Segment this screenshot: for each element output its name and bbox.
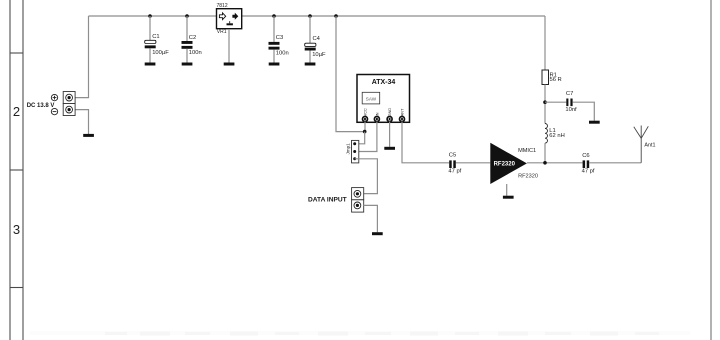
svg-text:DC 13.8 V: DC 13.8 V	[27, 103, 55, 109]
ground amp	[503, 196, 514, 199]
internal gnd mark	[229, 21, 231, 23]
capacitor C1	[145, 16, 170, 63]
svg-text:VCC: VCC	[364, 108, 368, 116]
svg-text:47 pf: 47 pf	[448, 169, 461, 175]
pad pin ANT	[400, 117, 405, 122]
svg-text:C6: C6	[582, 153, 589, 159]
connector DATA pin 2 pad	[354, 202, 361, 209]
wire junction to C7	[545, 101, 566, 103]
svg-text:C7: C7	[566, 91, 573, 97]
svg-text:100µF: 100µF	[152, 50, 169, 56]
svg-text:C4: C4	[313, 36, 321, 42]
svg-text:GND: GND	[388, 108, 392, 117]
svg-text:47 pf: 47 pf	[582, 169, 595, 175]
wire IN pin to jmp1 pin2	[355, 122, 377, 152]
module ATX-34	[357, 75, 410, 123]
capacitor C6	[582, 153, 595, 175]
svg-text:ANT: ANT	[401, 108, 405, 116]
wire C7 to ground	[573, 102, 595, 121]
wire ANT pin to RF line	[402, 122, 449, 163]
node junction output	[543, 161, 547, 165]
wire VCC branch down to module	[336, 16, 365, 132]
ground C2	[182, 63, 193, 66]
svg-text:DATA INPUT: DATA INPUT	[308, 196, 347, 203]
svg-text:2: 2	[13, 104, 20, 119]
node junction VCC jumper	[363, 130, 367, 134]
svg-text:VR1: VR1	[217, 29, 227, 35]
connector X1 DC input box	[63, 92, 75, 116]
polarity minus symbol	[51, 108, 57, 114]
antenna Ant1	[634, 126, 656, 163]
frame left outer vertical line	[22, 0, 24, 340]
svg-text:ATX-34: ATX-34	[372, 79, 396, 86]
capacitor C4	[305, 16, 326, 63]
node junction C2	[185, 14, 189, 18]
connector DATA INPUT box	[352, 188, 364, 213]
svg-text:100n: 100n	[189, 50, 202, 56]
resistor R1	[542, 70, 562, 85]
node junction VCC branch	[334, 14, 338, 18]
node junction C1	[148, 14, 152, 18]
wire R1 to junction	[544, 85, 546, 124]
wire amp ground stub	[506, 184, 508, 196]
svg-text:C2: C2	[189, 35, 196, 41]
svg-text:7812: 7812	[217, 3, 228, 9]
wire C6 to antenna	[589, 162, 641, 164]
ground ATX GND	[384, 147, 395, 150]
svg-text:C1: C1	[152, 34, 159, 40]
capacitor C5	[448, 153, 490, 175]
svg-text:3: 3	[13, 222, 20, 237]
svg-text:C5: C5	[449, 153, 456, 159]
header jmp1	[346, 140, 359, 163]
svg-text:IN: IN	[376, 112, 380, 116]
pad pin IN	[374, 117, 379, 122]
svg-text:100n: 100n	[276, 50, 289, 56]
wire VCC junction to jmp1 pin1	[355, 132, 365, 144]
ground C4	[305, 63, 316, 66]
svg-text:MMIC1: MMIC1	[518, 148, 536, 154]
input hollow arrow	[219, 13, 225, 20]
frame divider y287	[10, 287, 23, 289]
capacitor C7	[565, 91, 577, 113]
frame right vertical line	[710, 0, 712, 340]
frame divider y53	[10, 52, 23, 54]
svg-text:Jmp1: Jmp1	[346, 143, 351, 155]
ground C7	[589, 121, 600, 124]
ground C3	[269, 63, 280, 66]
SAW block	[362, 92, 380, 104]
ground DC minus	[83, 134, 94, 137]
svg-text:62 nH: 62 nH	[549, 133, 564, 139]
frame left inner vertical line	[9, 0, 11, 340]
svg-text:RF2320: RF2320	[518, 173, 538, 179]
frame divider y170	[10, 169, 23, 171]
wire L1 to output node	[544, 143, 546, 163]
svg-text:10µF: 10µF	[312, 52, 326, 58]
capacitor C3	[269, 16, 289, 63]
wire VR1 to ground	[228, 29, 230, 63]
ground C1	[145, 63, 156, 66]
wire top power rail	[89, 15, 546, 17]
wire data pin2 to ground	[364, 205, 378, 232]
svg-text:Ant1: Ant1	[644, 142, 655, 148]
capacitor C2	[182, 16, 202, 63]
faint bottom artifacts	[30, 331, 690, 336]
wire amp output	[527, 162, 583, 164]
wire DC minus to ground	[75, 110, 88, 134]
svg-text:56 R: 56 R	[550, 77, 562, 83]
output solid arrow	[232, 13, 238, 20]
svg-text:10nf: 10nf	[565, 107, 577, 113]
pad pin GND	[387, 117, 392, 122]
regulator VR1 7812	[217, 3, 242, 35]
connector DATA pin 1 pad	[354, 190, 361, 197]
node junction C3	[272, 14, 276, 18]
inductor L1	[545, 124, 565, 144]
svg-text:SAW: SAW	[366, 96, 377, 101]
wire left rail to DC plus	[75, 16, 88, 98]
wire GND pin to ground	[389, 122, 391, 147]
polarity plus symbol	[51, 94, 57, 100]
ground VR1	[224, 63, 235, 66]
amplifier MMIC1 RF2320	[490, 143, 538, 184]
node junction R1 C7	[543, 100, 547, 104]
ground data input	[372, 232, 383, 235]
svg-text:RF2320: RF2320	[494, 162, 516, 168]
connector X1 pin 1 pad	[66, 94, 73, 101]
connector X1 pin 2 pad	[66, 106, 73, 113]
wire R1 branch from rail	[544, 16, 546, 70]
pad pin VCC	[363, 117, 368, 122]
node junction C4	[308, 14, 312, 18]
wire jmp1 pin3 to data input pin1	[355, 159, 378, 194]
wire VCC pin down	[364, 122, 366, 132]
svg-text:C3: C3	[276, 35, 283, 41]
